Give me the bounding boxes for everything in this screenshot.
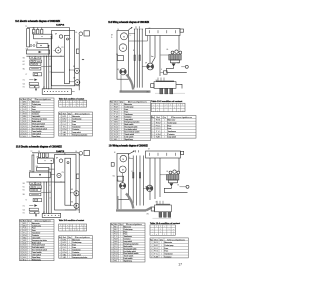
- pilot unit base Q4: [169, 180, 178, 183]
- svg-text:13.2 Wiring schematic diagram: 13.2 Wiring schematic diagram of CS6140Z…: [108, 21, 149, 24]
- svg-text:M: M: [122, 48, 124, 50]
- svg-text:SB1: SB1: [23, 57, 26, 59]
- wires into connector top: [157, 78, 159, 82]
- wire harness line 3: [139, 29, 141, 88]
- wire strip drop 4: [178, 36, 180, 51]
- svg-text:SQ6: SQ6: [114, 137, 119, 139]
- pilot unit body Q4: [167, 175, 179, 181]
- connector pin Q4 3: [168, 212, 171, 217]
- svg-text:SQ1: SQ1: [23, 121, 27, 123]
- svg-text:EL: EL: [178, 185, 180, 187]
- panel top mark: [67, 38, 69, 40]
- svg-text:Signal lamp: Signal lamp: [32, 136, 40, 138]
- main switch QF2 box: [38, 158, 54, 163]
- panel tall rect: [64, 36, 69, 84]
- svg-text:FU1: FU1: [62, 244, 66, 246]
- svg-text:15: 15: [20, 136, 22, 138]
- svg-text:XT2: XT2: [23, 212, 26, 214]
- svg-text:No: No: [151, 117, 154, 119]
- svg-text:FU2: FU2: [23, 230, 27, 232]
- svg-text:10: 10: [111, 248, 113, 250]
- wire control rail B Q3: [26, 181, 65, 183]
- terminal strip XT2: [146, 29, 181, 36]
- fuse FU2: [37, 29, 39, 34]
- svg-text:12: 12: [111, 253, 113, 255]
- svg-text:SQ1: SQ1: [114, 246, 118, 248]
- motor housing box Q4: [117, 154, 129, 200]
- stack row 8 terminal Q3: [30, 212, 34, 214]
- svg-text:Signal lamp: Signal lamp: [125, 139, 133, 141]
- svg-text:HL: HL: [23, 136, 27, 138]
- svg-text:Signal lamp: Signal lamp: [124, 261, 132, 263]
- svg-text:Fuse: Fuse: [32, 106, 36, 108]
- strip end box Q4: [181, 151, 184, 154]
- terminal strip XT1: [42, 89, 71, 95]
- wire rail into panel: [69, 28, 71, 36]
- wire right drop Q3: [78, 153, 80, 213]
- wire below housing: [120, 75, 122, 91]
- wire stack to bundle Q3: [41, 192, 51, 194]
- svg-text:FU1: FU1: [154, 248, 159, 250]
- stack row 8 terminal: [30, 86, 34, 88]
- svg-text:M1: M1: [114, 226, 118, 228]
- relay KA1 wide box: [26, 50, 49, 54]
- svg-text:XP: XP: [145, 186, 147, 188]
- svg-text:Fuse: Fuse: [32, 230, 36, 232]
- svg-text:FU: FU: [38, 151, 40, 153]
- svg-text:Table 13-2 condition of contac: Table 13-2 condition of contact: [151, 100, 182, 103]
- wire enclosure internal Q3: [55, 181, 65, 183]
- svg-text:HL1: HL1: [23, 187, 26, 189]
- lamp EL2: [185, 65, 188, 68]
- svg-text:SQ1: SQ1: [23, 209, 26, 211]
- svg-text:Fuse: Fuse: [72, 247, 76, 249]
- svg-text:13.4 Wiring schematic diagram: 13.4 Wiring schematic diagram of CS6240Z…: [109, 145, 148, 148]
- svg-text:PV: PV: [62, 47, 64, 49]
- circle on QF2 wire: [59, 159, 63, 163]
- pilot indicator triangle: [172, 63, 176, 66]
- top right box Q3: [84, 150, 90, 155]
- svg-text:Fuse: Fuse: [124, 234, 128, 236]
- svg-text:VC1: VC1: [23, 80, 26, 82]
- stack row 2 lamps: [30, 60, 42, 63]
- wire M6 link: [71, 204, 74, 206]
- motor M6: [74, 203, 79, 208]
- wire bundle Q3 line 3: [48, 171, 50, 214]
- svg-text:PV: PV: [62, 172, 64, 174]
- svg-text:SQ2: SQ2: [114, 127, 119, 129]
- arrow from housing: [129, 28, 132, 30]
- selector circle Q2: [120, 69, 126, 75]
- svg-text:16: 16: [20, 259, 22, 261]
- svg-text:EL: EL: [76, 32, 78, 34]
- svg-text:TC: TC: [23, 233, 27, 235]
- cable sheath curve Q4: [126, 194, 133, 209]
- power plug XP1: [147, 63, 154, 70]
- wire lamp link Q4: [180, 186, 187, 188]
- svg-text:SB1: SB1: [23, 119, 27, 121]
- svg-text:10: 10: [20, 245, 22, 247]
- wire strip to enclosure: [72, 91, 75, 93]
- tick labels W Q4: [135, 150, 137, 152]
- wire KM1 feed: [47, 45, 50, 47]
- circle on QF1 wire: [59, 35, 62, 38]
- parts table Q4: [111, 223, 146, 263]
- svg-text:HL: HL: [167, 49, 169, 51]
- ground arrow: [35, 89, 37, 92]
- cable vertical Q4: [117, 196, 119, 209]
- svg-text:No: No: [150, 239, 153, 241]
- svg-text:HL: HL: [114, 261, 118, 263]
- wire strip to housing: [129, 36, 148, 42]
- selector circle Q4: [120, 183, 126, 189]
- wire housing to bus Q4: [129, 158, 134, 160]
- connector block XC1: [154, 82, 176, 89]
- svg-text:17: 17: [178, 263, 182, 267]
- svg-text:SQ5: SQ5: [23, 252, 27, 254]
- svg-text:SB1: SB1: [23, 183, 26, 185]
- svg-text:HL2: HL2: [23, 190, 26, 192]
- svg-text:FU2: FU2: [62, 124, 66, 126]
- svg-text:13: 13: [20, 131, 22, 133]
- svg-text:3~: 3~: [111, 37, 113, 39]
- svg-text:No: No: [110, 102, 113, 104]
- top right pilot circle: [79, 32, 83, 36]
- overload box right line Q3: [76, 174, 79, 179]
- svg-text:TC: TC: [62, 127, 66, 129]
- connector pin 1: [160, 88, 163, 94]
- svg-text:11: 11: [111, 129, 113, 131]
- wire M1 link: [70, 69, 75, 71]
- cable faint continuation: [155, 92, 185, 94]
- svg-text:HL: HL: [23, 257, 27, 259]
- svg-text:M2: M2: [62, 242, 66, 244]
- svg-text:SQ2: SQ2: [23, 245, 27, 247]
- wire bus to S: [161, 72, 164, 74]
- wire bundle line 4: [50, 37, 52, 89]
- svg-text:M1: M1: [62, 116, 66, 118]
- connector pin 2: [165, 88, 168, 94]
- svg-text:FU1: FU1: [23, 106, 27, 108]
- motor housing box Q2: [117, 31, 129, 80]
- svg-text:Fuse: Fuse: [72, 124, 76, 126]
- svg-text:14: 14: [20, 254, 22, 256]
- svg-text:FU1: FU1: [62, 121, 66, 123]
- svg-text:SB1: SB1: [62, 257, 66, 259]
- svg-text:1AP2: 1AP2: [56, 150, 65, 153]
- svg-text:Fuse: Fuse: [72, 121, 76, 123]
- svg-text:3~: 3~: [129, 157, 131, 159]
- svg-text:SQ3: SQ3: [114, 129, 119, 131]
- arrow in relay box: [39, 51, 42, 53]
- svg-text:10: 10: [111, 127, 113, 129]
- fuse FU4: [38, 153, 40, 158]
- panel tall rect Q3: [65, 158, 71, 205]
- svg-text:SQ2: SQ2: [23, 124, 27, 126]
- strip end box: [180, 29, 184, 32]
- svg-text:M1: M1: [156, 120, 162, 122]
- svg-text:M2: M2: [154, 245, 159, 247]
- wire M2 link: [70, 81, 75, 83]
- junction dots Q1: [43, 56, 44, 57]
- svg-text:KT: KT: [26, 200, 28, 202]
- svg-text:TC: TC: [114, 236, 118, 238]
- terminal strip XT3: [42, 213, 61, 217]
- wire strip drop Q4 3: [159, 158, 161, 197]
- wire strip drop Q4 4: [178, 158, 180, 172]
- wire harness line 1: [134, 29, 136, 88]
- wire bundle Q3 line 4: [50, 163, 52, 213]
- wire stack to bundle: [41, 66, 51, 68]
- stack row 1 switch Q3: [30, 182, 41, 185]
- contact state table Q4: [150, 225, 175, 236]
- svg-text:Fuse: Fuse: [165, 251, 169, 253]
- aux box left Q4: [111, 163, 114, 167]
- svg-text:FU1: FU1: [23, 228, 27, 230]
- main switch QF1 box: [34, 34, 52, 39]
- svg-text:XT2: XT2: [23, 87, 26, 89]
- top right box: [84, 31, 90, 36]
- connector left key: [151, 84, 154, 88]
- wire bundle Q3 line 2: [45, 182, 47, 213]
- overload box on right line: [76, 49, 79, 54]
- wire M5 link: [71, 192, 74, 194]
- wire top supply rail: [27, 27, 70, 29]
- connector left key Q4: [151, 207, 154, 211]
- pilot unit base: [171, 60, 180, 63]
- wire bus to pilot Q4: [160, 174, 167, 176]
- designator labels Q3: [29, 151, 78, 214]
- designator labels Q2: [116, 28, 180, 94]
- wire pilot L-run: [167, 67, 187, 73]
- svg-text:XT: XT: [43, 212, 45, 214]
- svg-text:14: 14: [111, 137, 113, 139]
- connector pin Q4 2: [164, 212, 167, 217]
- underline below pins Q4: [153, 217, 172, 219]
- transformer TC1 winding loop: [27, 29, 30, 47]
- fuse FU5: [42, 153, 44, 158]
- svg-text:12: 12: [111, 132, 113, 134]
- svg-text:SQ5: SQ5: [114, 134, 119, 136]
- svg-text:S: S: [161, 69, 162, 71]
- stack row 7 Q3: [29, 208, 38, 211]
- connector shade bar: [156, 81, 174, 82]
- svg-text:SQ1: SQ1: [23, 84, 26, 86]
- parts table Q2: [110, 101, 151, 142]
- svg-text:TC: TC: [154, 254, 158, 256]
- resistor ticks Q4 a: [133, 173, 134, 179]
- ground arrow Q3: [35, 214, 37, 217]
- svg-text:HL: HL: [114, 139, 119, 141]
- svg-text:11: 11: [20, 126, 22, 128]
- top right circle Q3: [79, 152, 83, 156]
- svg-text:Fuse: Fuse: [168, 128, 172, 130]
- fan motor M7: [120, 155, 127, 162]
- svg-text:11: 11: [20, 247, 22, 249]
- svg-text:Signal lamp: Signal lamp: [32, 257, 40, 259]
- svg-text:Fuse: Fuse: [32, 109, 36, 111]
- meter ticks: [54, 49, 56, 51]
- designator labels Q1: [25, 26, 77, 89]
- svg-text:SB1: SB1: [23, 240, 27, 242]
- svg-text:SQ4: SQ4: [114, 253, 118, 255]
- svg-text:FU2: FU2: [114, 234, 118, 236]
- svg-text:M: M: [122, 159, 124, 161]
- svg-text:W1: W1: [147, 92, 149, 94]
- pilot triangle Q4: [169, 183, 173, 186]
- resistor ticks b: [139, 55, 140, 61]
- stack row 4 dashes Q3: [30, 193, 41, 196]
- svg-text:FU2: FU2: [114, 112, 119, 114]
- junction mark: [82, 59, 83, 60]
- svg-text:No: No: [111, 224, 113, 226]
- svg-text:SQ5: SQ5: [23, 131, 27, 133]
- svg-text:SB1: SB1: [114, 122, 119, 124]
- resistor ticks a: [134, 55, 135, 61]
- connector shade bar Q4: [156, 204, 170, 205]
- wire bus to pilot: [161, 54, 169, 56]
- connector block XC2: [155, 205, 172, 212]
- wire plug drop Q4: [120, 189, 122, 209]
- wire rail into panel Q3: [64, 153, 66, 155]
- svg-text:FU2: FU2: [23, 109, 27, 111]
- svg-text:FU2: FU2: [154, 251, 159, 253]
- svg-text:XT: XT: [148, 149, 150, 151]
- svg-text:3~: 3~: [130, 35, 132, 37]
- svg-text:1AP2: 1AP2: [56, 24, 65, 27]
- svg-text:EL: EL: [178, 63, 180, 65]
- svg-text:M1: M1: [23, 101, 27, 103]
- resistor ticks Q4 b: [139, 173, 140, 179]
- svg-text:M2: M2: [23, 225, 27, 227]
- contact marks left: [30, 45, 32, 47]
- pilot unit body: [169, 55, 181, 61]
- svg-text:No: No: [20, 220, 22, 222]
- svg-text:EL: EL: [76, 151, 78, 153]
- components table Q2 right: [151, 116, 196, 139]
- pump motor M8: [119, 166, 126, 173]
- small box in housing: [117, 56, 123, 61]
- wire strip drop Q4 2: [154, 158, 156, 199]
- wire enclosure bottom Q3: [65, 209, 79, 211]
- svg-text:KT: KT: [26, 74, 28, 76]
- svg-text:No: No: [59, 113, 62, 115]
- electric cabinet enclosure: [52, 31, 75, 86]
- svg-text:HL2: HL2: [23, 64, 26, 66]
- svg-text:FU2: FU2: [156, 128, 161, 130]
- svg-text:SQ3: SQ3: [114, 251, 118, 253]
- svg-text:11: 11: [111, 251, 113, 253]
- svg-text:13: 13: [111, 256, 113, 258]
- svg-text:SQ6: SQ6: [23, 133, 27, 135]
- svg-text:15: 15: [111, 261, 113, 263]
- svg-text:13: 13: [20, 252, 22, 254]
- svg-text:13.1 Electric schematic diagra: 13.1 Electric schematic diagram of CS614…: [15, 20, 60, 23]
- wire to plug diagonal: [152, 36, 155, 64]
- contact state table Q3: [59, 224, 87, 232]
- svg-text:Fuse: Fuse: [125, 109, 129, 111]
- wire pilot L-run Q4: [164, 186, 187, 192]
- svg-text:TC: TC: [62, 249, 66, 251]
- svg-text:QF: QF: [36, 157, 38, 159]
- svg-text:ba: ba: [151, 56, 153, 58]
- relay box wide Q3: [30, 172, 51, 177]
- svg-text:SQ1: SQ1: [23, 242, 27, 244]
- contact state table Q2: [151, 103, 185, 112]
- motor M2: [75, 80, 80, 85]
- svg-text:10: 10: [20, 124, 22, 126]
- junction tick: [82, 59, 84, 61]
- stack row 3 lamps Q3: [30, 189, 41, 192]
- stack row 5 box: [33, 73, 42, 76]
- svg-text:M2: M2: [73, 78, 75, 80]
- svg-text:M1: M1: [154, 242, 159, 244]
- wire enclosure internal: [52, 71, 65, 73]
- svg-text:SB1: SB1: [62, 135, 66, 137]
- svg-text:SQ6: SQ6: [114, 258, 118, 260]
- svg-text:15: 15: [111, 139, 113, 141]
- svg-text:XT: XT: [43, 87, 45, 89]
- stack row 3 lamps: [30, 63, 41, 66]
- arrow to harness Q4: [128, 151, 134, 154]
- stack row 4 dashes: [30, 67, 41, 70]
- svg-text:SQ4: SQ4: [23, 128, 27, 130]
- svg-text:13: 13: [111, 134, 113, 136]
- svg-text:FU2: FU2: [62, 247, 66, 249]
- svg-text:Table 13-3 condition of contac: Table 13-3 condition of contact: [59, 219, 85, 222]
- svg-text:12: 12: [20, 250, 22, 252]
- connector pin 3: [170, 88, 173, 94]
- wire lamp link: [181, 66, 185, 68]
- svg-text:M2: M2: [114, 107, 119, 109]
- motor M5: [74, 191, 79, 196]
- terminal strip XT4: [146, 151, 181, 158]
- wire plug stem Q4: [143, 187, 146, 189]
- svg-text:Table 13-4 condition of contac: Table 13-4 condition of contact: [150, 222, 180, 225]
- cable run to connector: [120, 90, 151, 92]
- contactor KM1 box: [37, 44, 48, 48]
- svg-text:HL1: HL1: [23, 61, 26, 63]
- svg-text:SQ2: SQ2: [114, 248, 118, 250]
- svg-text:M1: M1: [73, 66, 75, 68]
- wire bundle line 2: [45, 56, 47, 89]
- svg-text:SQ1: SQ1: [114, 124, 119, 126]
- contactor KM2 box: [37, 167, 49, 171]
- panel top mark Q3: [67, 162, 69, 164]
- stack row 5 box Q3: [33, 198, 42, 201]
- svg-text:TC: TC: [23, 111, 27, 113]
- wire harness line Q4 2: [136, 156, 138, 206]
- svg-text:Fuse: Fuse: [72, 244, 76, 246]
- connector pin Q4 1: [159, 212, 162, 217]
- svg-text:Fuse: Fuse: [124, 231, 128, 233]
- wire motor box drop: [122, 173, 124, 183]
- components table Q4 right: [150, 238, 188, 258]
- pilot unit assembly circles: [171, 51, 174, 54]
- wire harness line Q4 4: [142, 156, 144, 206]
- svg-text:HL: HL: [167, 171, 169, 173]
- contact state table Q1: [59, 100, 87, 108]
- svg-text:13.3 Electric schematic diagra: 13.3 Electric schematic diagram of CS624…: [16, 146, 62, 149]
- svg-text:TC: TC: [114, 114, 118, 116]
- svg-text:M1: M1: [62, 239, 66, 241]
- svg-text:x: x: [33, 153, 34, 155]
- svg-text:XT: XT: [149, 28, 151, 30]
- switch S small: [164, 71, 168, 74]
- svg-text:FU1: FU1: [114, 109, 119, 111]
- svg-text:XP: XP: [145, 63, 147, 65]
- wire strip drop 3: [159, 36, 161, 77]
